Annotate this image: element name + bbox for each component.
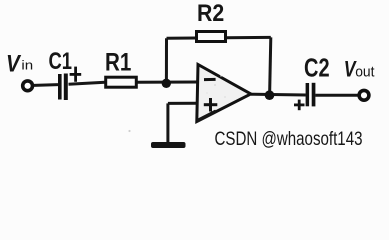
svg-text:R2: R2 (197, 0, 224, 27)
svg-text:in: in (21, 57, 33, 72)
svg-text:V: V (6, 50, 22, 77)
svg-text:out: out (355, 63, 375, 80)
svg-text:C1: C1 (49, 48, 73, 75)
svg-text:R1: R1 (105, 49, 131, 77)
svg-text:C2: C2 (304, 53, 330, 83)
svg-text:CSDN @whaosoft143: CSDN @whaosoft143 (215, 128, 363, 150)
